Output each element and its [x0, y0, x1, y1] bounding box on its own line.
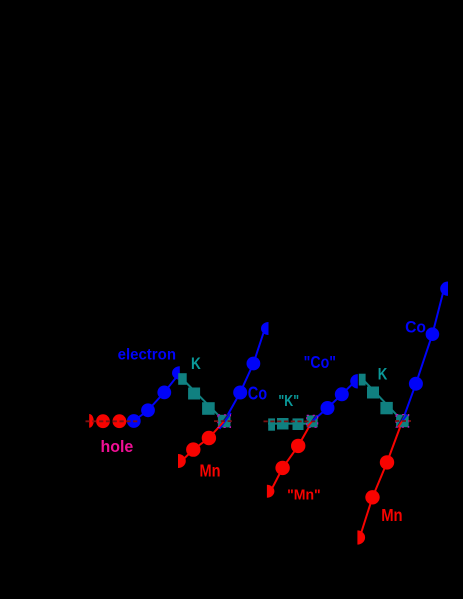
diagonal 3: blue circle 2	[426, 327, 440, 341]
K chain 1: square 3	[202, 402, 215, 415]
label: quoted Mn chain2	[287, 487, 321, 504]
K chain 3: half square cap	[359, 374, 366, 386]
label: Co chain3	[405, 317, 426, 336]
diagonal 3: blue curve segment	[402, 291, 443, 421]
label: Mn chain3	[381, 505, 402, 525]
diagonal 2: blue curve segment	[312, 382, 354, 421]
diagonal 3: blue top lens	[440, 282, 448, 296]
diagonal 2: red bottom lens	[267, 485, 275, 498]
legend chain: blue circle 3	[157, 386, 171, 400]
label: Co chain1	[248, 383, 267, 403]
svg-text:hole: hole	[101, 437, 134, 456]
legend chain: red end lens	[89, 414, 94, 428]
K chain 3: teal connecting line	[362, 378, 403, 421]
diagonal 2: red circle 1	[275, 461, 289, 475]
diagonal 2: blue circle 1	[321, 401, 335, 415]
diagonal 1: blue top lens	[261, 322, 268, 335]
diagonal 2: blue circle 2	[335, 387, 349, 401]
svg-text:Mn: Mn	[200, 461, 221, 481]
legend chain: blue circle 2	[141, 403, 155, 417]
diagonal 1: red circle 2	[202, 431, 216, 445]
K chain 3: square 3	[380, 402, 392, 414]
label: K chain3	[378, 364, 388, 383]
svg-text:K: K	[191, 355, 201, 373]
diagonal 1: blue circle 2	[247, 357, 261, 371]
K chain 2: square 3	[293, 418, 304, 430]
legend chain: blue top lens	[172, 366, 180, 380]
diagonal 2: fermi dashes	[264, 420, 319, 422]
svg-text:"Mn": "Mn"	[287, 487, 321, 504]
K chain 1: teal connecting line	[183, 379, 225, 421]
diagonal 1: red circle 1	[186, 442, 200, 456]
legend chain: red circle 2	[113, 414, 127, 428]
diagonal 3: blue circle 1	[409, 377, 423, 391]
diagonal 3: crossed square at fermi level	[396, 415, 409, 428]
diagonal 3: red circle 1	[365, 490, 379, 504]
K chain 3: square 2	[367, 387, 379, 399]
label: quoted Co chain2	[304, 352, 336, 372]
label: K chain1	[191, 355, 201, 373]
svg-text:Co: Co	[405, 317, 426, 336]
svg-text:Co: Co	[248, 383, 267, 403]
diagonal 3: fermi dashes	[395, 420, 411, 422]
diagonal 2: blue top lens	[350, 374, 358, 388]
diagonal 1: red curve segment	[182, 421, 225, 461]
K chain 2 horizontal: teal connecting line	[268, 423, 312, 425]
svg-text:Mn: Mn	[381, 505, 402, 525]
diagonal 2: red circle 2	[291, 439, 305, 453]
diagonal 2: crossed square at fermi level	[307, 415, 319, 427]
label: Mn chain1	[200, 461, 221, 481]
svg-text:"Co": "Co"	[304, 352, 336, 372]
legend chain: red circle 1	[96, 414, 110, 428]
diagonal 1: fermi dashes	[214, 420, 233, 422]
diagonal 3: red circle 2	[380, 455, 394, 469]
K chain 1: half square cap	[178, 373, 187, 385]
legend dashed fermi line	[86, 420, 140, 422]
K chain 2: square 2	[277, 418, 289, 430]
label: electron	[118, 346, 176, 363]
legend chain: blue curve line	[134, 377, 177, 421]
K chain 1: square 2	[188, 388, 200, 400]
label: quoted K chain2	[278, 393, 299, 410]
svg-text:"K": "K"	[278, 393, 299, 410]
diagonal 3: red bottom lens	[357, 530, 365, 544]
diagonal 1: red bottom lens	[178, 454, 186, 468]
diagonal 1: crossed square at fermi level	[218, 413, 231, 429]
label: hole	[101, 437, 134, 456]
diagonal 1: blue curve segment	[224, 329, 265, 422]
diagonal 3: red curve segment	[361, 421, 403, 534]
diagonal 2: red curve segment	[271, 421, 313, 491]
diagonal 1: blue circle 1	[233, 386, 247, 400]
K chain 2: half square cap	[268, 418, 275, 430]
legend chain: blue circle 1	[127, 414, 141, 428]
svg-text:electron: electron	[118, 346, 176, 363]
svg-text:K: K	[378, 364, 388, 383]
